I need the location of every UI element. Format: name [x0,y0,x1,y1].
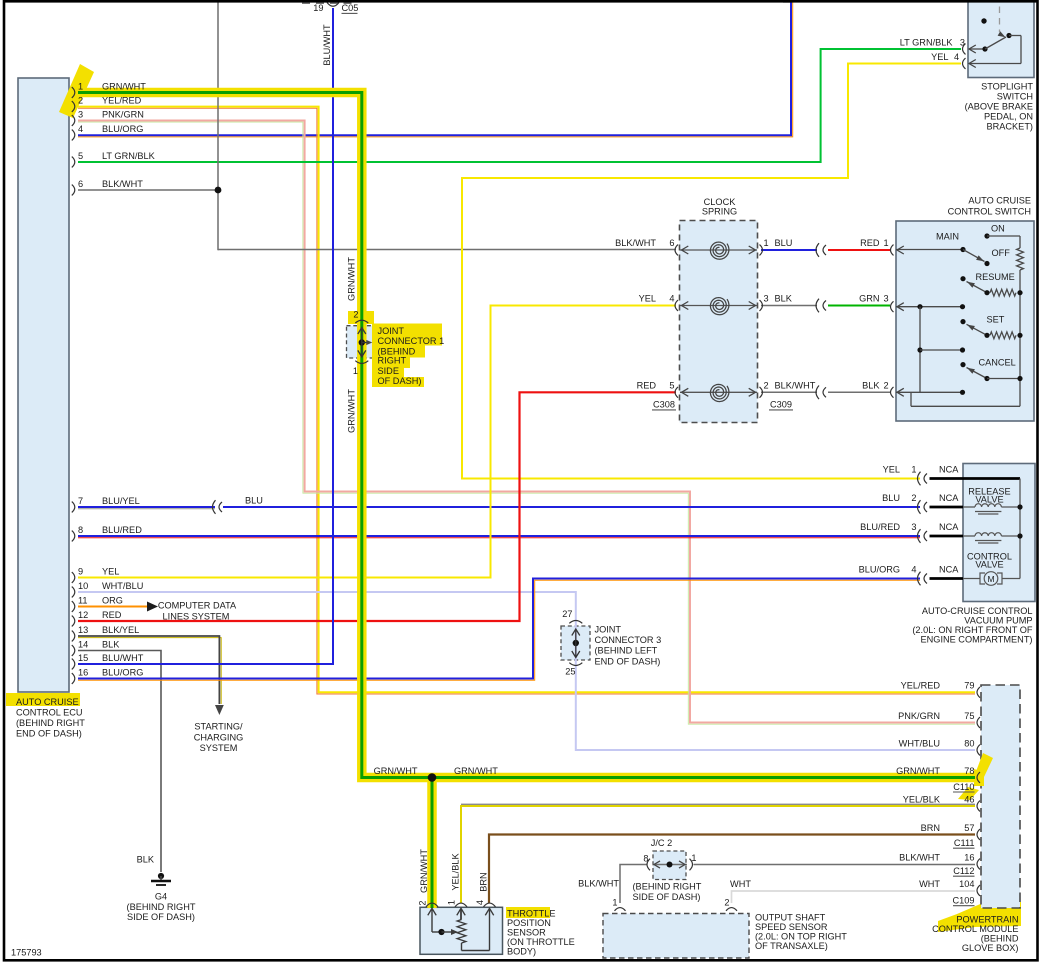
svg-text:OF TRANSAXLE): OF TRANSAXLE) [755,941,828,951]
svg-text:BODY): BODY) [507,946,536,956]
svg-text:WHT/BLU: WHT/BLU [899,738,940,748]
svg-text:J/C 2: J/C 2 [651,838,672,848]
svg-text:GRN/WHT: GRN/WHT [102,82,146,92]
svg-text:BLU: BLU [245,496,263,506]
svg-text:BLK: BLK [862,380,880,390]
svg-text:YEL/BLK: YEL/BLK [903,794,941,804]
svg-text:(ABOVE BRAKE: (ABOVE BRAKE [965,101,1033,111]
svg-text:NCA: NCA [939,493,959,503]
svg-text:2: 2 [884,380,889,390]
svg-text:57: 57 [964,823,974,833]
svg-text:BLU/ORG: BLU/ORG [102,124,143,134]
svg-text:BLU: BLU [882,493,900,503]
svg-text:CONNECTOR 1: CONNECTOR 1 [378,336,445,346]
svg-text:BLU: BLU [775,238,793,248]
svg-text:6: 6 [78,179,83,189]
svg-text:CONTROL MODULE: CONTROL MODULE [932,924,1018,934]
svg-text:5: 5 [78,151,83,161]
svg-text:SPRING: SPRING [702,207,737,217]
svg-text:C309: C309 [770,400,792,410]
svg-text:RIGHT: RIGHT [378,356,407,366]
svg-text:78: 78 [964,766,974,776]
svg-text:CHARGING: CHARGING [194,732,244,742]
svg-text:1: 1 [447,900,457,905]
svg-text:4: 4 [911,565,916,575]
svg-text:RED: RED [637,380,657,390]
svg-text:CONNECTOR 3: CONNECTOR 3 [595,635,662,645]
svg-text:3: 3 [884,294,889,304]
svg-text:SYSTEM: SYSTEM [200,743,238,753]
svg-text:AUTO-CRUISE CONTROL: AUTO-CRUISE CONTROL [922,606,1033,616]
svg-text:THROTTLE: THROTTLE [507,908,556,918]
svg-text:SENSOR: SENSOR [507,927,546,937]
svg-text:M: M [987,574,994,584]
svg-text:WHT: WHT [730,879,751,889]
svg-text:YEL/RED: YEL/RED [901,681,941,691]
svg-text:2: 2 [724,898,729,908]
svg-text:2: 2 [353,310,358,320]
svg-text:13: 13 [78,625,88,635]
svg-text:27: 27 [562,609,572,619]
svg-text:RED: RED [860,238,880,248]
svg-text:YEL/BLK: YEL/BLK [451,852,461,890]
svg-text:3: 3 [911,522,916,532]
svg-text:GRN: GRN [859,294,879,304]
svg-text:1: 1 [884,238,889,248]
svg-text:BRN: BRN [921,823,940,833]
svg-text:25: 25 [565,666,575,676]
svg-text:GRN/WHT: GRN/WHT [347,257,357,301]
svg-text:C05: C05 [342,3,359,13]
svg-text:GRN/WHT: GRN/WHT [419,849,429,893]
svg-text:OFF: OFF [992,248,1011,258]
svg-text:AUTO CRUISE: AUTO CRUISE [968,196,1031,206]
svg-text:PNK/GRN: PNK/GRN [898,711,940,721]
svg-text:(2.0L: ON TOP RIGHT: (2.0L: ON TOP RIGHT [755,932,847,942]
svg-text:RED: RED [102,610,122,620]
svg-text:GLOVE BOX): GLOVE BOX) [962,943,1019,953]
svg-text:BLU/ORG: BLU/ORG [859,565,900,575]
svg-text:BLK/WHT: BLK/WHT [102,179,143,189]
svg-text:YEL: YEL [639,294,656,304]
svg-text:1: 1 [690,853,697,863]
svg-text:GRN/WHT: GRN/WHT [896,766,940,776]
svg-text:WHT/BLU: WHT/BLU [102,581,143,591]
svg-text:JOINT: JOINT [595,625,622,635]
svg-text:SIDE OF DASH): SIDE OF DASH) [633,892,701,902]
svg-text:16: 16 [964,852,974,862]
svg-text:3: 3 [956,37,966,47]
svg-text:BLK: BLK [137,855,155,865]
svg-text:4: 4 [78,124,83,134]
svg-text:SIDE OF DASH): SIDE OF DASH) [127,912,195,922]
svg-text:6: 6 [669,238,674,248]
svg-text:(BEHIND RIGHT: (BEHIND RIGHT [16,718,85,728]
svg-text:YEL: YEL [102,567,119,577]
svg-text:46: 46 [964,794,974,804]
svg-text:(BEHIND: (BEHIND [981,934,1019,944]
svg-text:BLU/WHT: BLU/WHT [322,24,332,66]
svg-text:AUTO CRUISE: AUTO CRUISE [16,697,79,707]
svg-text:OF DASH): OF DASH) [378,376,422,386]
svg-text:(BEHIND RIGHT: (BEHIND RIGHT [127,902,196,912]
svg-text:ORG: ORG [102,596,123,606]
svg-text:BRACKET): BRACKET) [987,121,1033,131]
svg-text:SWITCH: SWITCH [997,91,1033,101]
svg-text:SET: SET [987,315,1005,325]
svg-text:VALVE: VALVE [975,495,1003,505]
svg-text:C112: C112 [953,866,974,876]
svg-text:MAIN: MAIN [936,231,959,241]
svg-text:9: 9 [78,567,83,577]
svg-text:LT GRN/BLK: LT GRN/BLK [900,37,954,47]
svg-text:16: 16 [78,668,88,678]
svg-text:(2.0L: ON RIGHT FRONT OF: (2.0L: ON RIGHT FRONT OF [912,625,1033,635]
svg-text:19: 19 [313,3,323,13]
svg-text:BLU/YEL: BLU/YEL [102,496,140,506]
svg-text:END OF DASH): END OF DASH) [595,657,661,667]
svg-text:14: 14 [78,640,88,650]
svg-text:YEL/RED: YEL/RED [102,96,142,106]
svg-text:SPEED SENSOR: SPEED SENSOR [755,922,828,932]
svg-text:RESUME: RESUME [976,272,1015,282]
svg-text:BLK: BLK [775,294,793,304]
svg-text:BLK/WHT: BLK/WHT [615,238,656,248]
svg-text:CLOCK: CLOCK [704,197,737,207]
svg-text:BLK: BLK [102,640,120,650]
svg-text:BLU/RED: BLU/RED [860,522,900,532]
svg-text:1: 1 [612,898,617,908]
svg-text:G4: G4 [155,892,167,902]
svg-text:BLK/WHT: BLK/WHT [578,878,619,888]
svg-text:1: 1 [911,465,916,475]
svg-text:BLU/ORG: BLU/ORG [102,668,143,678]
svg-text:BLU/WHT: BLU/WHT [102,653,144,663]
svg-text:GRN/WHT: GRN/WHT [347,389,357,433]
svg-text:2: 2 [78,96,83,106]
svg-text:4: 4 [954,52,959,62]
svg-text:LINES SYSTEM: LINES SYSTEM [163,612,230,622]
svg-text:BLU/RED: BLU/RED [102,525,142,535]
svg-text:15: 15 [78,653,88,663]
svg-text:CONTROL SWITCH: CONTROL SWITCH [948,207,1031,217]
svg-text:2: 2 [764,380,769,390]
svg-text:(BEHIND LEFT: (BEHIND LEFT [595,646,658,656]
svg-text:12: 12 [78,610,88,620]
svg-text:PEDAL, ON: PEDAL, ON [984,111,1033,121]
svg-text:OUTPUT SHAFT: OUTPUT SHAFT [755,913,826,923]
svg-text:BLK/WHT: BLK/WHT [899,852,940,862]
svg-text:BRN: BRN [479,872,489,891]
svg-text:BLK/WHT: BLK/WHT [775,380,816,390]
svg-text:YEL: YEL [883,465,900,475]
svg-text:ON: ON [991,224,1005,234]
svg-text:75: 75 [964,711,974,721]
svg-text:(ON THROTTLE: (ON THROTTLE [507,937,575,947]
svg-text:COMPUTER DATA: COMPUTER DATA [158,601,237,611]
svg-text:1: 1 [78,82,83,92]
svg-text:C308: C308 [653,400,675,410]
svg-text:STARTING/: STARTING/ [194,722,243,732]
svg-text:7: 7 [78,496,83,506]
svg-text:4: 4 [669,294,674,304]
svg-text:VALVE: VALVE [975,560,1003,570]
svg-text:10: 10 [78,581,88,591]
svg-text:JOINT: JOINT [378,326,405,336]
svg-text:LT GRN/BLK: LT GRN/BLK [102,151,156,161]
svg-text:POSITION: POSITION [507,918,551,928]
svg-text:175793: 175793 [11,948,42,958]
svg-text:POWERTRAIN: POWERTRAIN [956,915,1018,925]
svg-text:GRN/WHT: GRN/WHT [454,766,498,776]
svg-text:NCA: NCA [939,522,959,532]
svg-text:8: 8 [78,525,83,535]
svg-text:END OF DASH): END OF DASH) [16,728,82,738]
svg-text:2: 2 [911,493,916,503]
svg-text:C109: C109 [953,896,975,906]
svg-text:CONTROL ECU: CONTROL ECU [16,708,83,718]
svg-text:104: 104 [959,879,974,889]
svg-text:5: 5 [669,380,674,390]
svg-text:VACUUM PUMP: VACUUM PUMP [964,616,1032,626]
svg-text:PNK/GRN: PNK/GRN [102,110,144,120]
svg-text:STOPLIGHT: STOPLIGHT [981,81,1033,91]
svg-text:YEL: YEL [931,52,948,62]
svg-text:C111: C111 [954,838,975,848]
svg-text:CANCEL: CANCEL [979,357,1016,367]
svg-text:ENGINE COMPARTMENT): ENGINE COMPARTMENT) [921,635,1033,645]
svg-text:2: 2 [418,900,428,905]
svg-text:NCA: NCA [939,565,959,575]
svg-text:C110: C110 [953,782,974,792]
svg-text:1: 1 [353,366,358,376]
svg-text:8: 8 [643,854,648,864]
svg-text:3: 3 [78,110,83,120]
svg-text:11: 11 [78,596,88,606]
svg-text:3: 3 [764,294,769,304]
svg-text:(BEHIND RIGHT: (BEHIND RIGHT [633,882,702,892]
svg-text:GRN/WHT: GRN/WHT [374,766,418,776]
svg-text:79: 79 [964,681,974,691]
svg-text:NCA: NCA [939,465,959,475]
svg-text:4: 4 [475,900,485,905]
svg-text:80: 80 [964,738,974,748]
svg-text:1: 1 [764,238,769,248]
svg-text:SIDE: SIDE [378,366,399,376]
svg-text:BLK/YEL: BLK/YEL [102,625,139,635]
svg-text:WHT: WHT [919,879,940,889]
